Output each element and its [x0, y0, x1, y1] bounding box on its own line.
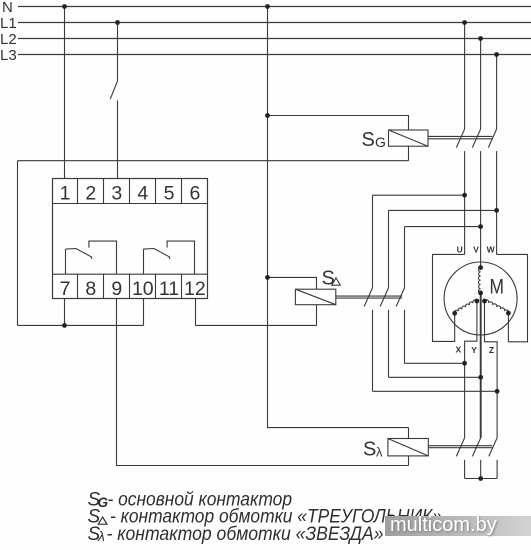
svg-text:λ: λ	[376, 445, 383, 460]
bus L3	[18, 54, 531, 56]
wire SG coil to relay common	[18, 160, 409, 162]
node X tap	[462, 361, 467, 366]
svg-text:S: S	[363, 439, 376, 461]
relay terminal numbers bottom	[60, 278, 206, 300]
motor winding W-Z	[485, 300, 509, 313]
node motor U inner	[475, 299, 480, 304]
wire star bridge	[465, 460, 498, 479]
svg-text:4: 4	[137, 183, 148, 205]
wire common bottom run	[18, 324, 144, 326]
wire run to Y	[389, 376, 481, 378]
wire S-delta contact 1 to Z run	[372, 310, 374, 391]
svg-text:Y: Y	[471, 345, 477, 355]
svg-text:10: 10	[132, 278, 154, 300]
node L1-switch	[115, 20, 120, 25]
svg-text:S: S	[322, 268, 335, 290]
wire S-delta coil bottom	[196, 305, 317, 326]
S-star contact 1	[456, 438, 464, 457]
mechanical link S-delta	[336, 296, 402, 298]
svg-text:7: 7	[60, 278, 71, 300]
svg-text:12: 12	[184, 278, 206, 300]
wire switch to relay terminal 3	[117, 101, 119, 179]
wire SG contact 2 to motor V	[480, 151, 482, 268]
svg-text:L3: L3	[0, 47, 17, 64]
wire N to relay terminal 1	[64, 7, 66, 179]
relay contact B pole (terminal 10)	[143, 249, 145, 274]
relay terminal row bottom	[53, 273, 208, 275]
wire L3 to SG contact 3	[496, 55, 498, 130]
wire run to Z	[373, 390, 498, 392]
wire N vertical feed to contactor coils	[268, 7, 409, 428]
wire L2 to SG contact 2	[480, 39, 482, 130]
svg-text:S: S	[362, 129, 375, 151]
svg-text:L1: L1	[0, 15, 17, 32]
wire SG coil top	[268, 116, 409, 131]
relay contact A arm	[66, 249, 92, 260]
motor body M	[444, 262, 517, 335]
wire SG coil bottom	[408, 146, 410, 161]
S-delta contact 1	[364, 288, 372, 307]
switch (control contact)	[110, 81, 117, 99]
wire terminal 9 down to S-star coil	[117, 299, 409, 466]
node motor V top	[478, 265, 483, 270]
relay contact A NO bracket (terminal 9)	[89, 241, 117, 274]
wire L1 to switch	[117, 23, 119, 82]
wire S-delta contact 2 to Y run	[388, 310, 390, 377]
svg-text:U: U	[457, 244, 463, 254]
motor W lead	[497, 254, 528, 341]
relay contact A pole (terminal 7)	[65, 249, 67, 274]
bus L2	[18, 38, 531, 40]
svg-text:1: 1	[60, 183, 71, 205]
svg-text:6: 6	[189, 183, 200, 205]
relay contact B NO bracket (terminal 12)	[167, 241, 194, 274]
contactor coil S-delta	[295, 289, 335, 305]
node L1-SG	[462, 20, 467, 25]
svg-text:M: M	[490, 276, 505, 299]
node L2-SG	[478, 36, 483, 41]
SG contact 1	[456, 129, 464, 148]
node L3-SG	[494, 52, 499, 57]
svg-text:W: W	[487, 244, 496, 254]
node terminal 7 common	[62, 323, 67, 328]
motor U lead	[433, 254, 465, 341]
node Z tap	[495, 389, 500, 394]
label S-delta triangle	[332, 278, 341, 285]
node U branch	[462, 193, 467, 198]
wire S-star coil top	[408, 428, 410, 439]
node motor W inner	[482, 299, 487, 304]
node motor W outer	[506, 311, 511, 316]
wire left drop to terminals 7-10	[17, 161, 19, 326]
node N-term1	[62, 4, 67, 9]
wire L1 to SG contact 1	[464, 23, 466, 130]
svg-text:11: 11	[159, 278, 179, 300]
wire S-delta coil top	[268, 277, 317, 289]
node star point	[478, 476, 483, 481]
wire Z drop	[485, 301, 498, 438]
node motor star center	[478, 291, 483, 296]
wire terminal 12 down to S-delta coil	[195, 299, 197, 326]
motor winding U-X	[454, 300, 476, 313]
S-star contact 2	[472, 438, 480, 457]
svg-text:2: 2	[85, 183, 96, 205]
wire SG contact 1 to motor U	[464, 151, 466, 254]
wire SG contact 3 to motor W	[496, 151, 498, 254]
wire U branch to S-delta contact 1	[373, 195, 465, 288]
wire V branch to S-delta contact 3	[405, 227, 481, 288]
node Y tap	[478, 375, 483, 380]
svg-text:V: V	[473, 244, 479, 254]
wire Y drop	[480, 293, 482, 438]
wire W branch to S-delta contact 2	[389, 210, 497, 288]
wire X drop	[465, 301, 477, 438]
svg-text:3: 3	[111, 183, 122, 205]
mechanical link S-star	[428, 446, 492, 448]
motor winding V-Y	[478, 268, 480, 293]
S-star contact 3	[489, 438, 497, 457]
svg-text:5: 5	[164, 183, 175, 205]
bus L1	[18, 22, 531, 24]
contactor coil SG	[389, 130, 429, 146]
contactor coil S-star	[388, 439, 428, 456]
node SG coil tap	[265, 113, 270, 118]
watermark multicom.by	[385, 516, 531, 536]
svg-text:G: G	[375, 134, 386, 150]
relay terminal row top	[53, 203, 208, 205]
svg-text:- контактор обмотки «ЗВЕЗДА»: - контактор обмотки «ЗВЕЗДА»	[107, 524, 384, 545]
svg-text:X: X	[455, 345, 461, 355]
wire S-delta contact 3 to X run	[404, 310, 406, 363]
svg-text:9: 9	[111, 278, 122, 300]
node V branch	[478, 224, 483, 229]
SG contact 2	[472, 129, 480, 148]
node motor U outer	[452, 311, 457, 316]
wire terminal 7 down	[64, 299, 66, 326]
wire terminal 10 down	[143, 299, 145, 326]
relay terminal numbers top	[60, 183, 201, 205]
SG contact 3	[488, 129, 496, 148]
legend triangle	[98, 517, 107, 524]
bus N	[18, 6, 531, 8]
relay contact B arm	[144, 249, 170, 260]
svg-text:Z: Z	[489, 345, 494, 355]
wire S-star coil bottom	[408, 456, 410, 466]
S-delta contact 3	[396, 288, 404, 307]
wire run to X	[405, 362, 465, 364]
node S-delta coil tap	[265, 275, 270, 280]
svg-text:L2: L2	[0, 31, 17, 48]
svg-text:N: N	[2, 0, 13, 16]
node N-coils	[265, 4, 270, 9]
svg-text:8: 8	[85, 278, 96, 300]
mechanical link SG	[428, 136, 492, 138]
relay module box	[53, 179, 208, 299]
svg-text:λ: λ	[97, 528, 105, 544]
node W branch	[494, 208, 499, 213]
S-delta contact 2	[380, 288, 388, 307]
